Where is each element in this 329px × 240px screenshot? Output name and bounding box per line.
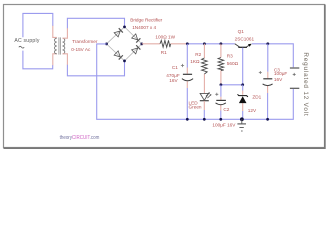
svg-text:ZD1: ZD1 — [252, 95, 261, 100]
output plus sign — [293, 73, 296, 76]
wire base node horizontal — [221, 84, 243, 86]
wire Q1 base — [242, 48, 244, 85]
wire top rail left section — [187, 43, 235, 45]
node C1 bottom — [186, 118, 189, 121]
svg-text:R3: R3 — [227, 54, 233, 59]
capacitor C1 leads — [186, 44, 188, 68]
svg-text:Q1: Q1 — [238, 29, 245, 34]
node base junction — [241, 83, 244, 86]
C1 labels — [166, 65, 180, 83]
svg-text:Bridge Rectifier: Bridge Rectifier — [130, 17, 162, 22]
capacitor C1 — [182, 74, 193, 80]
C2 polarity plus — [215, 93, 218, 96]
svg-text:12V: 12V — [248, 108, 257, 113]
svg-text:theoryCIRCUIT.com: theoryCIRCUIT.com — [60, 135, 100, 141]
node C3 bottom — [266, 118, 269, 121]
bridge corner nodes — [105, 26, 143, 63]
wire top rail right section — [252, 44, 293, 67]
svg-text:Transformer: Transformer — [72, 39, 98, 44]
diode D3 bottom-left — [114, 51, 123, 60]
node R3 top — [220, 42, 223, 45]
svg-text:Regulated 12 Volt: Regulated 12 Volt — [302, 52, 309, 116]
svg-text:Green: Green — [189, 105, 202, 110]
node C2 bottom — [219, 118, 222, 121]
LED lead to bottom rail — [203, 101, 205, 110]
diode D4 bottom-right — [132, 45, 141, 54]
transformer T1 primary winding — [54, 38, 56, 54]
resistor R3 leads — [220, 44, 222, 85]
C1 polarity plus — [181, 64, 184, 67]
node C1 top — [186, 42, 189, 45]
bridge rectifier label — [130, 17, 162, 30]
LED D5 — [200, 92, 212, 100]
node R2 top — [203, 42, 206, 45]
svg-text:100Ω 1W: 100Ω 1W — [155, 35, 175, 40]
wire bridge negative rail to bottom rail — [97, 44, 294, 119]
transformer T1 secondary winding — [63, 38, 65, 54]
node R3 bottom — [220, 83, 223, 86]
svg-text:C2: C2 — [223, 107, 229, 112]
diode D1 top-left — [114, 28, 123, 37]
transformer T1 core — [59, 37, 61, 54]
output terminal positive — [290, 67, 299, 69]
resistor R3 — [218, 58, 224, 71]
svg-text:100μF: 100μF — [274, 71, 288, 76]
zener ZD1 — [238, 85, 248, 120]
capacitor C3 — [263, 79, 273, 86]
node ground junction — [240, 117, 244, 121]
resistor R1 leads — [142, 43, 188, 45]
diode D2 top-right — [132, 34, 141, 43]
C3 polarity plus — [259, 71, 262, 74]
node LED bottom — [203, 118, 206, 121]
wire secondary bottom lead — [63, 54, 68, 65]
capacitor C2 leads — [220, 85, 222, 97]
C3 labels — [274, 68, 288, 83]
resistor R2 leads — [203, 44, 205, 93]
LED labels — [189, 101, 202, 110]
svg-text:C1: C1 — [172, 65, 178, 70]
svg-text:AC supply: AC supply — [14, 38, 39, 44]
AC supply source label — [14, 38, 39, 48]
wire secondary top to bridge — [67, 18, 124, 28]
ground — [237, 119, 246, 131]
svg-text:R2: R2 — [195, 52, 201, 57]
resistor R1 — [160, 40, 171, 47]
svg-text:2SC1061: 2SC1061 — [235, 36, 255, 41]
svg-text:16V: 16V — [274, 77, 283, 82]
svg-text:R1: R1 — [161, 50, 167, 55]
svg-text:1N4007 x 4: 1N4007 x 4 — [132, 25, 156, 30]
output terminal negative — [290, 87, 299, 89]
capacitor C3 leads — [267, 44, 269, 72]
capacitor C2 — [216, 100, 226, 104]
svg-text:560Ω: 560Ω — [227, 61, 239, 66]
wire primary leads — [53, 26, 57, 65]
transistor Q1 — [235, 44, 252, 48]
transformer label — [71, 39, 98, 52]
node C3 top — [266, 42, 269, 45]
wire secondary bottom to bridge bottom corner — [67, 61, 124, 76]
wire secondary top lead — [63, 28, 68, 38]
wire AC supply loop — [23, 13, 53, 68]
svg-text:16V: 16V — [169, 78, 178, 83]
resistor R2 — [202, 58, 208, 74]
svg-text:1KΩ: 1KΩ — [190, 59, 200, 64]
svg-text:100μF 16V: 100μF 16V — [212, 123, 236, 128]
bridge rectifier diamond frame — [107, 27, 142, 61]
svg-text:0-15V Ac: 0-15V Ac — [71, 47, 91, 52]
